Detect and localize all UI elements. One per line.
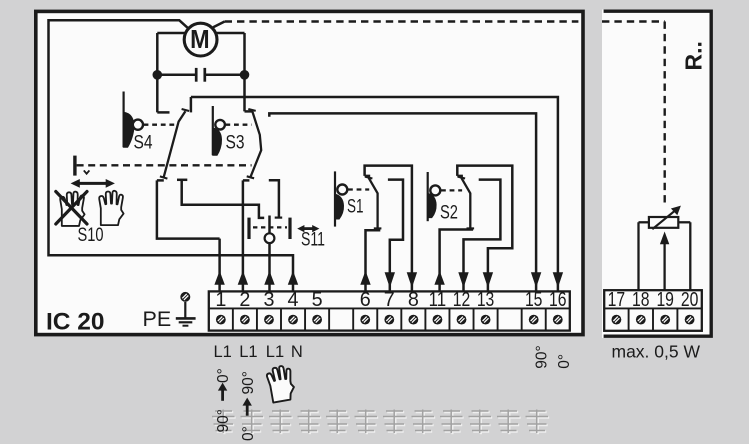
svg-text:15: 15 [525, 288, 543, 311]
svg-text:IC 20: IC 20 [46, 309, 105, 336]
svg-text:S3: S3 [226, 133, 245, 154]
svg-text:17: 17 [608, 288, 626, 311]
svg-text:4: 4 [288, 288, 299, 311]
svg-text:S2: S2 [440, 203, 458, 224]
svg-text:5: 5 [312, 288, 323, 311]
svg-text:2: 2 [239, 288, 250, 311]
svg-text:S1: S1 [347, 196, 364, 217]
svg-text:90°: 90° [534, 345, 551, 368]
svg-text:S10: S10 [78, 225, 104, 246]
svg-text:18: 18 [632, 288, 650, 311]
svg-text:3: 3 [263, 288, 274, 311]
svg-text:6: 6 [360, 288, 371, 311]
svg-text:16: 16 [549, 288, 567, 311]
svg-text:8: 8 [408, 288, 419, 311]
svg-text:13: 13 [477, 288, 495, 311]
svg-text:S11: S11 [301, 229, 325, 250]
svg-text:L1: L1 [239, 343, 257, 361]
svg-text:0°: 0° [556, 354, 573, 369]
svg-text:M: M [190, 26, 210, 54]
svg-text:PE: PE [143, 307, 172, 331]
svg-text:max. 0,5 W: max. 0,5 W [612, 342, 701, 362]
svg-text:20: 20 [681, 288, 699, 311]
svg-text:90°: 90° [215, 409, 232, 432]
svg-text:7: 7 [384, 288, 395, 311]
svg-text:0°: 0° [240, 426, 257, 441]
svg-text:N: N [291, 343, 303, 361]
svg-text:19: 19 [656, 288, 674, 311]
svg-text:1: 1 [215, 288, 226, 311]
svg-text:0°: 0° [215, 368, 232, 383]
svg-text:11: 11 [429, 288, 447, 311]
svg-text:L1: L1 [214, 343, 232, 361]
svg-text:12: 12 [453, 288, 471, 311]
svg-text:90°: 90° [240, 371, 257, 394]
svg-text:L1: L1 [266, 343, 284, 361]
svg-text:R..: R.. [681, 41, 707, 70]
svg-text:S4: S4 [134, 133, 153, 154]
